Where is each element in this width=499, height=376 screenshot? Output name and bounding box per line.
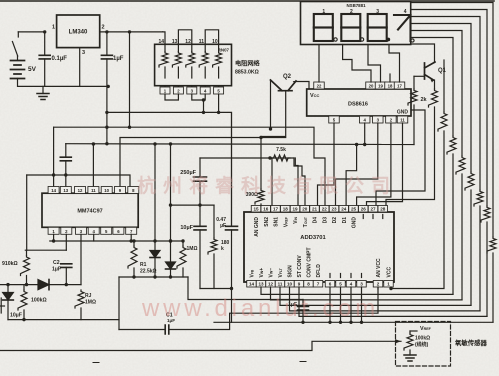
pin 14 MM74C97 top xyxy=(60,187,71,194)
node bus E D1 xyxy=(153,275,156,278)
node R1 top xyxy=(132,239,135,242)
wire base resistor upper xyxy=(413,76,415,89)
resistor 390ohm xyxy=(255,189,264,204)
pin 16 ADD3701 top xyxy=(271,206,281,213)
wire bundle 1 lower xyxy=(492,253,494,322)
wire Q2 collector down to bus A xyxy=(270,81,272,130)
wire 250uF to 10uF node xyxy=(199,181,201,226)
wire DS8616 pin3 to ADD3701 pin23 xyxy=(336,123,378,206)
node D2 rail bus D xyxy=(169,239,172,242)
wire filter cap upper xyxy=(302,300,304,307)
display digit 4 (reads 7) xyxy=(394,15,411,41)
pin 20 DS8616 top xyxy=(375,82,386,89)
wire D1 to bus E xyxy=(154,258,156,277)
diode D1 xyxy=(150,251,160,258)
ground xyxy=(37,94,49,100)
svg-text:RN07: RN07 xyxy=(218,48,230,53)
counter U4 MM74C97 box xyxy=(42,193,138,227)
svg-text:28: 28 xyxy=(380,207,386,212)
display digit 1 xyxy=(314,14,333,28)
svg-text:1µF: 1µF xyxy=(113,56,124,62)
svg-text:R1: R1 xyxy=(140,262,147,268)
wire battery negative bus xyxy=(18,79,109,87)
wire RJ to bottom bus xyxy=(80,308,82,320)
svg-text:10µF: 10µF xyxy=(180,225,193,231)
sensor box dashed xyxy=(396,322,451,367)
wire pin10 loop xyxy=(290,287,481,311)
wire pin4 stub to bottom bus xyxy=(350,287,352,322)
wire bus B to pin11 xyxy=(92,144,94,187)
svg-text:GND: GND xyxy=(397,110,409,116)
resistor segment-driver 5 xyxy=(456,156,465,174)
svg-text:14: 14 xyxy=(249,282,255,287)
svg-text:1MΩ: 1MΩ xyxy=(85,300,96,306)
resistor segment-driver 1 xyxy=(487,237,496,253)
svg-text:D3: D3 xyxy=(322,217,328,224)
svg-text:SN2: SN2 xyxy=(264,217,270,227)
pin 14 ADD3701 bottom xyxy=(256,281,266,288)
capacitor 1uF output xyxy=(101,55,112,59)
wire 2k to bus B xyxy=(413,105,415,145)
svg-text:LM340: LM340 xyxy=(69,30,88,36)
pin 4 MM74C97 bottom xyxy=(101,227,112,234)
wire pin9 to 390ohm feed xyxy=(120,138,286,188)
wire left-edge cutoff component xyxy=(0,298,2,313)
diode D4 zener xyxy=(3,293,14,301)
battery B1 5V xyxy=(11,61,25,79)
resistor 180k xyxy=(208,238,217,254)
node bus E R1 xyxy=(132,275,135,278)
wire pin13 rail lower xyxy=(65,161,67,187)
wire 100k to bottom bus xyxy=(23,310,25,320)
wire DS8616 pin4 to bus B xyxy=(364,123,366,145)
wire switch to battery xyxy=(17,56,19,60)
node RN bus j2 xyxy=(217,111,220,114)
tick pin 3 xyxy=(361,274,363,278)
wire +5V rail down to bus B xyxy=(106,59,108,144)
svg-text:VCC: VCC xyxy=(387,267,393,278)
resistor segment-driver 4 xyxy=(465,172,474,190)
wire input line xyxy=(0,284,81,286)
svg-text:20: 20 xyxy=(302,207,308,212)
resistor RN1 element 2 xyxy=(172,52,181,68)
pin 3 DS8616 bottom xyxy=(386,116,397,123)
node pin11 bus B xyxy=(92,142,95,145)
capacitor 10uF tantalum xyxy=(194,226,206,230)
capacitor 0.1uF input xyxy=(39,55,50,59)
node bus E D2 xyxy=(169,275,172,278)
svg-text:19: 19 xyxy=(292,207,298,212)
tick pin 5 xyxy=(340,274,342,278)
wire pin12 loop xyxy=(271,287,463,300)
resistor RN1 element 5 xyxy=(213,52,222,68)
wire pin9 loop xyxy=(299,287,487,316)
node bus C j2 xyxy=(64,173,67,176)
node bus D pin1 xyxy=(52,239,55,242)
svg-text:电阻网络: 电阻网络 xyxy=(235,60,261,68)
wire segment bundle 4 upper xyxy=(412,24,471,173)
svg-text:20: 20 xyxy=(369,84,374,89)
node bus C j1 xyxy=(52,173,55,176)
wire RN pin11-pin10 loop xyxy=(205,30,218,45)
wire C2 lower xyxy=(65,267,67,284)
svg-text:18: 18 xyxy=(283,207,289,212)
wire 0.47uF lower xyxy=(231,230,233,289)
node D2 rail bus B xyxy=(169,142,172,145)
svg-text:0.1µF: 0.1µF xyxy=(52,56,68,62)
pin 5 MM74C97 bottom xyxy=(113,227,124,234)
wire pin1 stub xyxy=(390,287,392,289)
decoder U3 DS8616 box xyxy=(307,89,411,116)
svg-text:23: 23 xyxy=(331,207,337,212)
svg-text:13: 13 xyxy=(258,282,264,287)
node 390ohm tap xyxy=(259,136,262,139)
wire bus E left drop xyxy=(118,277,120,330)
wire zener upper xyxy=(7,285,9,293)
svg-text:3: 3 xyxy=(82,50,85,56)
decimal point dp4 xyxy=(411,39,414,42)
wire bundle 5 lower xyxy=(461,174,463,300)
svg-text:CONV CMPT: CONV CMPT xyxy=(307,248,313,278)
node branch joins bus A xyxy=(128,126,131,129)
svg-text:17: 17 xyxy=(273,207,279,212)
node bus B drop xyxy=(355,143,358,146)
display digit 3 xyxy=(368,14,387,28)
resistor R1 22.5k xyxy=(128,246,137,268)
svg-text:1MΩ: 1MΩ xyxy=(187,246,198,252)
resistor segment-driver 3 xyxy=(474,190,483,206)
wire Q1 emitter down xyxy=(434,80,436,89)
wire ground stem xyxy=(42,86,44,93)
svg-text:www.dianlut.com: www.dianlut.com xyxy=(141,295,379,322)
wire RN pin1-pin2 join xyxy=(165,94,178,100)
pin 27 ADD3701 top xyxy=(378,206,388,213)
wire pin3 stub to bottom bus xyxy=(361,287,363,322)
capacitor 0.47uF xyxy=(226,226,238,230)
pin 10 ADD3701 bottom xyxy=(294,281,304,288)
svg-text:14: 14 xyxy=(159,39,165,45)
svg-text:AN GND: AN GND xyxy=(254,217,260,237)
svg-text:22: 22 xyxy=(322,207,328,212)
wire rail to bottom bus xyxy=(231,289,233,323)
svg-text:SN1: SN1 xyxy=(274,217,280,227)
svg-text:12: 12 xyxy=(78,188,83,193)
svg-text:8853.0KΩ: 8853.0KΩ xyxy=(235,70,259,76)
node bottom bus cap xyxy=(301,321,304,324)
pin 15 ADD3701 top xyxy=(261,206,271,213)
svg-text:NSB7881: NSB7881 xyxy=(346,3,366,8)
node bus D pin7 xyxy=(130,239,133,242)
resistor 7.5k xyxy=(272,155,290,161)
wire RN pin13-pin12 loop xyxy=(178,30,191,45)
wire segment bundle 3 upper xyxy=(412,17,480,191)
wire R1 to bus E xyxy=(133,268,135,277)
pin 4 RN1 bottom stub xyxy=(204,86,206,87)
wire bus E to C-filter xyxy=(188,277,303,300)
pin 25 ADD3701 top xyxy=(359,206,369,213)
resistor RJ 1M xyxy=(75,290,84,308)
wire bottom bus long xyxy=(214,321,493,323)
wire branch to pin19 xyxy=(295,158,298,206)
pin 2 DS8616 bottom xyxy=(397,116,408,123)
pin 9 ADD3701 bottom xyxy=(304,281,314,288)
svg-text:2k: 2k xyxy=(421,97,428,103)
pin 10 MM74C97 top xyxy=(115,187,126,194)
svg-text:10: 10 xyxy=(212,39,218,45)
node rail end bus B xyxy=(105,142,108,145)
wire 390ohm upper xyxy=(260,138,262,190)
tick pin 27 xyxy=(372,215,374,219)
pin 19 DS8616 top xyxy=(385,82,396,89)
wire 7.5k to ADD3701 pin20 xyxy=(294,158,305,206)
svg-text:AN VCC: AN VCC xyxy=(376,258,382,278)
wire segment bundle 6 upper xyxy=(412,38,453,137)
svg-text:D2: D2 xyxy=(332,217,338,224)
node C2 bottom xyxy=(65,283,68,286)
node +5V / 1uF cap xyxy=(105,30,108,33)
pin 7 ADD3701 bottom xyxy=(325,281,335,288)
svg-text:11: 11 xyxy=(91,188,96,193)
resistor segment-driver 7 xyxy=(438,112,447,131)
wire pin18 stub xyxy=(389,74,391,82)
svg-text:1: 1 xyxy=(387,282,390,287)
node pin5 bus xyxy=(339,321,342,324)
pin 26 ADD3701 top xyxy=(368,206,378,213)
svg-text:27: 27 xyxy=(370,207,376,212)
svg-text:11: 11 xyxy=(400,118,405,123)
resistor RN1 element 4 xyxy=(199,52,208,68)
node Q2 collector bus A xyxy=(269,127,272,130)
pin 8 MM74C97 top xyxy=(48,227,59,234)
svg-text:SIGN: SIGN xyxy=(288,265,294,278)
wire bottom node bus xyxy=(200,288,232,290)
pin 18 DS8616 top xyxy=(394,82,405,89)
wire pin13 loop xyxy=(261,287,453,294)
node RN bus j1 xyxy=(202,111,205,114)
pin 22 ADD3701 top xyxy=(329,206,339,213)
svg-text:11: 11 xyxy=(278,282,283,287)
wire bundle7 to VCC pin xyxy=(391,131,444,289)
wire LM340 pin2 +5V xyxy=(100,31,163,33)
pin 19 ADD3701 top xyxy=(300,206,310,213)
svg-text:5V: 5V xyxy=(28,66,37,73)
wire +5V rail upper xyxy=(106,32,108,55)
pin 12 ADD3701 bottom xyxy=(275,281,285,288)
resistor RN1 element 3 xyxy=(186,52,195,68)
tick pin 4 xyxy=(350,274,352,278)
wire pin2 stub xyxy=(377,287,379,289)
svg-text:D1: D1 xyxy=(342,217,348,224)
pin 22 DS8616 top xyxy=(366,82,377,89)
wire switch to node xyxy=(18,31,44,33)
svg-text:C2: C2 xyxy=(53,260,60,266)
wire 10uF to bottom node xyxy=(199,230,201,289)
pin 24 ADD3701 top xyxy=(349,206,359,213)
svg-text:7: 7 xyxy=(317,282,320,287)
node bus D d2 xyxy=(169,239,172,242)
pin 21 ADD3701 top xyxy=(320,206,330,213)
node 1M top xyxy=(181,239,184,242)
wire display d3 to pin19 xyxy=(368,45,381,83)
node battery/C-in/LM340 pin1 xyxy=(43,30,46,33)
wire pin7 to bus xyxy=(130,234,132,241)
wire pot top stub xyxy=(410,330,417,332)
node 7.5k left xyxy=(268,156,271,159)
svg-text:MM74C97: MM74C97 xyxy=(77,209,102,215)
resistor 1M input xyxy=(177,246,186,268)
node ADD3701 pin1 VCC xyxy=(389,287,392,290)
wire bottom-left bus xyxy=(8,319,119,321)
wire display d1 to DS8616 pin22 xyxy=(318,45,320,83)
pin 13 ADD3701 bottom xyxy=(266,281,276,288)
node +5V branch xyxy=(128,30,131,33)
svg-text:17: 17 xyxy=(397,84,402,89)
svg-text:19: 19 xyxy=(378,84,383,89)
display digit 2 xyxy=(341,14,360,28)
wire pin5 stub to bottom bus xyxy=(340,287,342,322)
wire sensor feed long xyxy=(0,341,401,350)
diode D2 xyxy=(166,262,176,269)
pin 4 ADD3701 bottom xyxy=(357,281,367,288)
svg-text:12: 12 xyxy=(268,282,274,287)
pin 1 MM74C97 bottom xyxy=(61,227,72,234)
svg-text:7.5k: 7.5k xyxy=(276,147,286,153)
svg-text:4: 4 xyxy=(350,282,353,287)
svg-text:Q2: Q2 xyxy=(283,74,292,80)
wire DS8616 pin5 to ADD3701 pin21 xyxy=(318,123,335,206)
diode D3 xyxy=(38,280,49,290)
node 0.47uF rail bottom xyxy=(230,287,233,290)
svg-text:22.5kΩ: 22.5kΩ xyxy=(140,269,157,275)
svg-text:10: 10 xyxy=(104,188,109,193)
svg-text:100kΩ: 100kΩ xyxy=(31,298,47,304)
svg-text:16: 16 xyxy=(263,207,269,212)
wire segment bundle 5 upper xyxy=(412,31,462,157)
svg-text:21: 21 xyxy=(312,207,318,212)
svg-text:10µF: 10µF xyxy=(10,313,22,319)
tick pin 6 xyxy=(329,274,331,278)
svg-text:11: 11 xyxy=(199,39,205,45)
wire DS8616 pin2 to ADD3701 pin25 xyxy=(357,123,391,206)
wire pot to ground xyxy=(409,350,411,355)
regulator U2 LM340 xyxy=(57,15,100,48)
pin 3 ADD3701 bottom xyxy=(373,281,383,288)
wire LM340 pin3 to ground bus xyxy=(79,48,81,87)
wire segment bundle 1 upper xyxy=(412,3,493,238)
pin 3 RN1 bottom stub xyxy=(191,86,193,87)
svg-text:22: 22 xyxy=(317,84,322,89)
capacitor C1 xyxy=(165,325,169,334)
pin 12 MM74C97 top xyxy=(88,187,99,194)
top border line xyxy=(0,0,494,2)
pin 11 ADD3701 bottom xyxy=(285,281,295,288)
svg-text:杭州将睿科技有限公司: 杭州将睿科技有限公司 xyxy=(137,174,397,197)
svg-text:ADD3701: ADD3701 xyxy=(300,235,326,241)
wire 180k upper xyxy=(213,205,215,238)
wire 7.5k tap to pin17 xyxy=(271,158,273,206)
wire node to 180k feed xyxy=(171,204,215,206)
wire Q1 emitter chain to pin28 xyxy=(386,107,435,206)
svg-text:µF: µF xyxy=(220,223,226,229)
decimal point dp1 xyxy=(334,38,337,41)
svg-text:D4: D4 xyxy=(313,217,319,224)
wire pin6 stub to bottom bus xyxy=(329,287,331,322)
pin 5 DS8616 bottom xyxy=(359,116,370,123)
svg-text:9: 9 xyxy=(298,282,301,287)
resistor 2k base xyxy=(408,89,417,105)
wire display d2 to pin20 xyxy=(343,45,371,83)
capacitor 250uF xyxy=(194,177,207,181)
pin 17 DS8616 top xyxy=(329,116,340,123)
wire RN pin5 down to bus xyxy=(218,94,220,112)
pin 8 ADD3701 bottom xyxy=(313,281,323,288)
pin 18 ADD3701 top xyxy=(290,206,300,213)
svg-text:RJ: RJ xyxy=(85,293,92,299)
wire pin4 to bus xyxy=(93,234,95,241)
node rail crosses bus A xyxy=(105,126,108,129)
wire 250uF upper xyxy=(199,158,201,177)
resistor segment-driver 6 xyxy=(447,136,456,154)
node zener tap xyxy=(6,283,9,286)
svg-text:2: 2 xyxy=(377,282,380,287)
wire node to C-in xyxy=(44,32,46,55)
svg-text:13: 13 xyxy=(63,188,68,193)
arrowhead sensor wiper xyxy=(395,339,401,343)
wire display to Q1 collector xyxy=(412,44,435,63)
wire zener to bottom bus xyxy=(7,301,9,320)
pin 9 MM74C97 top xyxy=(128,187,139,194)
wire Q1 base xyxy=(414,75,425,77)
wire bus D cathode xyxy=(50,240,183,242)
wire left rail to 910k xyxy=(26,175,28,250)
tick pin 28 xyxy=(382,215,384,219)
svg-text:12: 12 xyxy=(185,39,191,45)
pin 23 ADD3701 top xyxy=(339,206,349,213)
svg-text:k: k xyxy=(221,246,224,252)
wire RN pin14 to +5V xyxy=(163,32,165,44)
wire bus E xyxy=(119,276,188,278)
wire pin1 to bus xyxy=(53,234,55,241)
svg-text:10: 10 xyxy=(287,282,293,287)
ADC U5 ADD3701 box xyxy=(244,212,394,282)
wire bundle 4 lower xyxy=(470,190,472,305)
wire C1 right to ADD3701 pin2 xyxy=(169,287,378,330)
wire Q2 base to 390ohm node xyxy=(261,91,286,137)
node D2 rail 180k tap xyxy=(169,203,172,206)
svg-text:24: 24 xyxy=(341,207,347,212)
resistor RN1 element 1 xyxy=(159,52,168,68)
pin 20 ADD3701 top xyxy=(310,206,320,213)
svg-text:910kΩ: 910kΩ xyxy=(2,261,18,267)
resistor emitter load xyxy=(429,89,438,107)
wire pin3 to input node xyxy=(80,234,82,284)
wire RN pin3-pin4 join xyxy=(192,94,205,100)
pin 17 ADD3701 top xyxy=(281,206,291,213)
svg-text:3: 3 xyxy=(360,282,363,287)
wire bus C xyxy=(27,175,130,187)
potentiometer 100k sensor xyxy=(404,333,413,350)
wire pin13 rail upper xyxy=(65,144,67,158)
svg-text:15: 15 xyxy=(253,207,259,212)
wire 390ohm to pin16 xyxy=(260,204,262,206)
capacitor C2 1uF xyxy=(61,264,72,268)
tick pin 26 xyxy=(362,215,364,219)
wire 1M to bus E xyxy=(182,268,184,277)
wire bus A +5V to ADD3701 pin22 xyxy=(54,127,325,206)
pin 2 MM74C97 bottom xyxy=(76,227,87,234)
svg-text:5: 5 xyxy=(339,282,342,287)
resistor 910k xyxy=(21,256,30,276)
